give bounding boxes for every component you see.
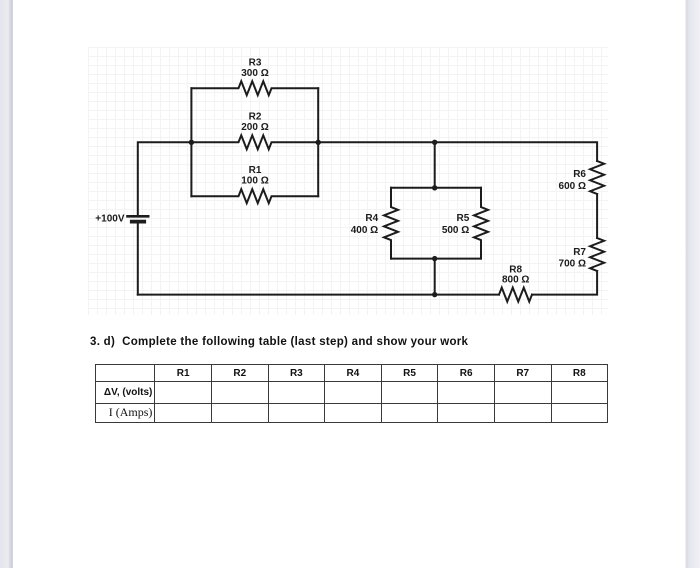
wire: bottom line back to battery xyxy=(138,294,499,296)
wire: bottom rail junction down to bottom line xyxy=(434,259,436,295)
svg-text:R7: R7 xyxy=(573,247,586,258)
svg-text:500 Ω: 500 Ω xyxy=(442,225,469,236)
resistor R1 100Ω branch xyxy=(191,189,318,203)
svg-text:400 Ω: 400 Ω xyxy=(351,225,378,236)
svg-text:300 Ω: 300 Ω xyxy=(241,68,268,79)
resistor R4 400Ω branch xyxy=(384,188,398,259)
wire: R7 down to bottom right corner and left to R8 xyxy=(532,271,597,295)
node: R4||R5 bottom rail junction xyxy=(432,256,437,261)
node: main line / left rail junction xyxy=(189,140,194,145)
node: top line junction to R4||R5 xyxy=(432,140,437,145)
resistor R5 500Ω branch xyxy=(474,188,488,259)
battery V1 +100V long plate xyxy=(128,215,149,218)
svg-text:600 Ω: 600 Ω xyxy=(559,181,586,192)
wire: between R6 and R7 xyxy=(596,194,598,238)
node: main line / right rail junction xyxy=(316,140,321,145)
svg-text:700 Ω: 700 Ω xyxy=(559,258,586,269)
node: bottom line junction xyxy=(432,292,437,297)
wire: right parallel-bank rail xyxy=(317,88,319,196)
svg-text:R1: R1 xyxy=(249,165,262,176)
wire: battery negative down to bottom rail xyxy=(137,223,139,295)
resistor R3 300Ω branch xyxy=(191,81,318,95)
svg-text:100 Ω: 100 Ω xyxy=(241,175,268,186)
svg-text:R6: R6 xyxy=(573,169,586,180)
svg-text:R2: R2 xyxy=(249,111,262,122)
svg-text:R4: R4 xyxy=(365,213,378,224)
svg-text:+100V: +100V xyxy=(95,214,125,225)
wire: battery positive up to main node xyxy=(138,142,192,215)
svg-text:800 Ω: 800 Ω xyxy=(502,275,529,286)
svg-text:200 Ω: 200 Ω xyxy=(241,122,268,133)
battery V1 short plate xyxy=(132,220,144,224)
node: R4||R5 top rail junction xyxy=(432,185,437,190)
resistor R7 700Ω xyxy=(590,238,604,271)
wire: top line to right corner and down to R6 xyxy=(435,142,597,161)
wire: left parallel-bank rail xyxy=(190,88,192,196)
wire: junction drop to R4||R5 top rail xyxy=(434,142,436,188)
resistor R8 800Ω xyxy=(499,288,532,302)
wire: main line from right rail to top junction xyxy=(318,141,435,143)
svg-text:R3: R3 xyxy=(249,57,262,68)
resistor R2 200Ω branch on main line xyxy=(191,135,318,149)
svg-text:R5: R5 xyxy=(457,213,470,224)
wire: R4||R5 top rail xyxy=(391,187,481,189)
resistor R6 600Ω xyxy=(590,161,604,194)
wire: R4||R5 bottom rail xyxy=(391,258,481,260)
